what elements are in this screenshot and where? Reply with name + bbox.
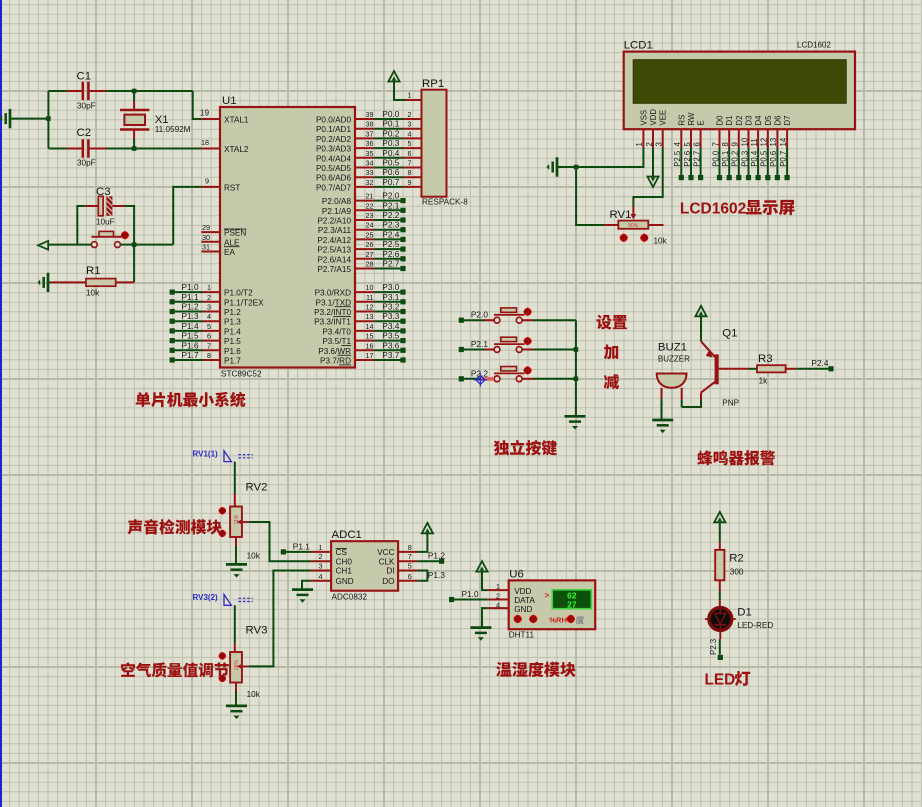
svg-text:1: 1 [635, 142, 644, 146]
svg-text:DO: DO [382, 577, 394, 586]
svg-text:P1.1/T2EX: P1.1/T2EX [224, 298, 264, 307]
svg-text:11: 11 [750, 138, 759, 146]
svg-text:P1.6: P1.6 [224, 347, 241, 356]
svg-text:P2.1: P2.1 [471, 339, 488, 349]
svg-text:P0.1: P0.1 [721, 151, 730, 167]
svg-text:3: 3 [655, 142, 664, 146]
svg-text:P0.7: P0.7 [779, 151, 788, 167]
svg-text:15: 15 [366, 332, 374, 341]
svg-text:U1: U1 [222, 95, 237, 107]
svg-text:4: 4 [207, 312, 211, 321]
svg-text:P2.6: P2.6 [683, 151, 692, 167]
svg-text:P0.4: P0.4 [750, 150, 759, 167]
svg-text:P2.7/A15: P2.7/A15 [317, 265, 351, 274]
svg-text:D3: D3 [745, 116, 754, 126]
svg-text:29: 29 [202, 223, 210, 232]
svg-text:P3.7/RD: P3.7/RD [320, 357, 351, 366]
svg-text:30pF: 30pF [77, 159, 96, 168]
svg-text:P1.2: P1.2 [224, 308, 241, 317]
svg-text:10k: 10k [86, 289, 100, 298]
svg-text:CS: CS [336, 548, 348, 557]
svg-text:P1.3: P1.3 [182, 311, 199, 321]
svg-text:P2.7: P2.7 [692, 151, 701, 167]
svg-text:30: 30 [202, 233, 210, 242]
svg-text:28: 28 [366, 260, 374, 269]
svg-text:RST: RST [224, 183, 240, 192]
svg-text:27: 27 [366, 250, 374, 259]
svg-text:R1: R1 [86, 265, 101, 277]
svg-text:PNP: PNP [722, 399, 739, 408]
svg-text:P1.6: P1.6 [182, 340, 199, 350]
svg-text:P1.1: P1.1 [293, 542, 310, 552]
svg-text:24: 24 [366, 221, 374, 230]
svg-text:19: 19 [200, 109, 210, 118]
svg-text:6: 6 [692, 142, 701, 146]
svg-text:39: 39 [366, 110, 374, 119]
svg-text:17: 17 [366, 351, 374, 360]
svg-text:P0.0: P0.0 [382, 109, 399, 119]
svg-text:5: 5 [408, 139, 412, 148]
svg-text:CLK: CLK [379, 557, 395, 566]
svg-text:18: 18 [201, 138, 209, 147]
svg-text:10k: 10k [247, 690, 261, 699]
svg-text:16: 16 [366, 341, 374, 350]
svg-text:LED: LED [705, 671, 736, 688]
svg-text:LCD1602: LCD1602 [680, 201, 746, 218]
svg-text:4: 4 [408, 129, 412, 138]
svg-text:P1.0: P1.0 [182, 282, 199, 292]
svg-text:D5: D5 [764, 115, 773, 126]
svg-text:RP1: RP1 [422, 78, 444, 90]
svg-text:VDD: VDD [514, 587, 531, 596]
svg-text:10: 10 [366, 283, 374, 292]
svg-text:10k: 10k [654, 237, 668, 246]
svg-text:RESPACK-8: RESPACK-8 [422, 198, 468, 207]
svg-text:GND: GND [336, 577, 354, 586]
svg-text:P0.7: P0.7 [382, 177, 399, 187]
svg-text:P2.4: P2.4 [382, 229, 399, 239]
svg-text:9: 9 [205, 177, 209, 186]
svg-text:BUZ1: BUZ1 [658, 342, 687, 354]
svg-text:11: 11 [366, 293, 373, 302]
svg-text:34: 34 [366, 159, 374, 168]
svg-text:P0.1: P0.1 [382, 119, 399, 129]
svg-text:P2.5: P2.5 [382, 239, 399, 249]
svg-text:BUZZER: BUZZER [658, 355, 690, 364]
svg-text:P1.5: P1.5 [182, 331, 199, 341]
svg-text:1: 1 [319, 543, 323, 552]
svg-text:D2: D2 [735, 116, 744, 126]
svg-text:4: 4 [496, 600, 500, 609]
svg-text:P3.2: P3.2 [382, 302, 399, 312]
svg-text:P3.0/RXD: P3.0/RXD [315, 289, 351, 298]
svg-text:P0.0/AD0: P0.0/AD0 [316, 116, 351, 125]
svg-text:3: 3 [207, 303, 211, 312]
svg-text:26: 26 [366, 240, 374, 249]
svg-text:P3.3: P3.3 [382, 311, 399, 321]
svg-text:LED-RED: LED-RED [737, 621, 773, 630]
svg-text:VSS: VSS [639, 110, 648, 126]
svg-text:P1.1: P1.1 [182, 292, 199, 302]
svg-text:25: 25 [366, 230, 374, 239]
svg-text:P0.5: P0.5 [760, 150, 769, 167]
svg-text:RS: RS [677, 115, 686, 126]
svg-text:P2.5: P2.5 [673, 150, 682, 167]
svg-text:XTAL1: XTAL1 [224, 116, 249, 125]
svg-text:P1.3: P1.3 [428, 570, 445, 580]
svg-text:D7: D7 [783, 116, 792, 126]
svg-text:%RH: %RH [549, 615, 567, 624]
svg-text:P0.5: P0.5 [382, 158, 399, 168]
svg-text:RV3: RV3 [246, 625, 268, 637]
svg-text:8: 8 [408, 168, 412, 177]
svg-text:P2.2: P2.2 [382, 210, 399, 220]
svg-text:1k: 1k [759, 377, 769, 386]
svg-text:P3.4/T0: P3.4/T0 [322, 327, 351, 336]
svg-text:22: 22 [366, 201, 374, 210]
svg-text:P2.3: P2.3 [382, 220, 399, 230]
svg-text:D0: D0 [716, 115, 725, 126]
svg-text:ADC1: ADC1 [332, 529, 362, 541]
svg-text:1: 1 [408, 91, 412, 100]
svg-text:P1.0: P1.0 [462, 589, 479, 599]
svg-text:DHT11: DHT11 [509, 631, 535, 640]
svg-text:8: 8 [721, 142, 730, 146]
svg-text:R3: R3 [758, 353, 773, 365]
svg-text:ADC0832: ADC0832 [332, 593, 368, 602]
svg-text:2: 2 [408, 110, 412, 119]
svg-text:D1: D1 [737, 607, 752, 619]
svg-text:DI: DI [386, 567, 394, 576]
svg-text:P0.6: P0.6 [382, 167, 399, 177]
svg-text:P3.2/INT0: P3.2/INT0 [314, 308, 351, 317]
svg-text:>: > [545, 591, 550, 600]
svg-text:P1.5: P1.5 [224, 337, 241, 346]
svg-text:P0.3: P0.3 [740, 151, 749, 167]
svg-text:P3.0: P3.0 [382, 282, 399, 292]
svg-text:2: 2 [496, 592, 500, 601]
svg-text:R2: R2 [729, 553, 744, 565]
svg-text:P2.0: P2.0 [382, 191, 399, 201]
svg-text:35: 35 [366, 149, 374, 158]
svg-text:RV1(1): RV1(1) [193, 450, 219, 459]
svg-text:D1: D1 [725, 116, 734, 126]
svg-text:DATA: DATA [514, 596, 535, 605]
svg-text:P1.2: P1.2 [428, 551, 445, 561]
svg-text:36: 36 [366, 139, 374, 148]
svg-text:P3.6/WR: P3.6/WR [318, 347, 351, 356]
svg-text:P0.3/AD3: P0.3/AD3 [316, 145, 351, 154]
svg-text:5: 5 [207, 322, 211, 331]
svg-text:P3.6: P3.6 [382, 340, 399, 350]
svg-text:EA: EA [224, 248, 235, 257]
svg-text:RW: RW [687, 112, 696, 125]
svg-text:P0.5/AD5: P0.5/AD5 [316, 164, 351, 173]
svg-text:XTAL2: XTAL2 [224, 145, 249, 154]
svg-text:50%: 50% [628, 223, 639, 229]
svg-text:7: 7 [408, 159, 412, 168]
svg-text:RV2: RV2 [246, 482, 268, 494]
svg-text:P0.2/AD2: P0.2/AD2 [316, 135, 351, 144]
svg-text:P1.4: P1.4 [224, 327, 241, 336]
svg-text:STC89C52: STC89C52 [221, 370, 262, 379]
svg-text:P3.7: P3.7 [382, 350, 399, 360]
svg-text:Q1: Q1 [722, 328, 737, 340]
svg-text:2: 2 [319, 552, 323, 561]
svg-text:P2.0/A8: P2.0/A8 [322, 197, 352, 206]
svg-text:P2.3: P2.3 [709, 639, 718, 655]
svg-text:P0.4/AD4: P0.4/AD4 [316, 154, 351, 163]
svg-text:P1.7: P1.7 [224, 357, 241, 366]
svg-text:P1.2: P1.2 [182, 302, 199, 312]
svg-text:P2.1/A9: P2.1/A9 [322, 207, 352, 216]
svg-text:PSEN: PSEN [224, 229, 246, 238]
svg-text:P0.2: P0.2 [731, 151, 740, 167]
svg-text:VDD: VDD [649, 109, 658, 126]
svg-text:33: 33 [366, 168, 374, 177]
svg-text:4: 4 [319, 572, 323, 581]
svg-text:26%: 26% [234, 659, 240, 670]
svg-text:13: 13 [769, 138, 778, 147]
svg-text:P3.5: P3.5 [382, 331, 399, 341]
svg-text:D4: D4 [754, 115, 763, 126]
svg-text:GND: GND [514, 605, 532, 614]
svg-text:4: 4 [673, 142, 682, 147]
svg-text:300: 300 [730, 568, 744, 577]
svg-text:6: 6 [408, 572, 412, 581]
svg-text:P2.4: P2.4 [811, 358, 828, 368]
svg-text:P0.7/AD7: P0.7/AD7 [316, 183, 351, 192]
svg-text:14: 14 [779, 137, 788, 146]
svg-text:C1: C1 [77, 71, 92, 83]
svg-text:P3.4: P3.4 [382, 321, 399, 331]
svg-text:10uF: 10uF [96, 217, 115, 226]
svg-text:VCC: VCC [377, 548, 394, 557]
svg-text:27: 27 [567, 599, 577, 609]
svg-text:10k: 10k [247, 552, 261, 561]
svg-text:12: 12 [760, 138, 769, 147]
svg-text:RV1: RV1 [610, 209, 632, 221]
svg-text:P3.5/T1: P3.5/T1 [322, 337, 351, 346]
svg-text:P0.6/AD6: P0.6/AD6 [316, 174, 351, 183]
svg-text:8: 8 [207, 351, 211, 360]
svg-text:P0.2: P0.2 [382, 128, 399, 138]
svg-text:11.0592M: 11.0592M [155, 125, 191, 134]
svg-text:1: 1 [496, 582, 500, 591]
svg-text:P1.3: P1.3 [224, 318, 241, 327]
svg-text:P2.3/A11: P2.3/A11 [318, 226, 352, 235]
svg-text:LCD1602: LCD1602 [797, 41, 831, 50]
svg-text:P0.0: P0.0 [711, 150, 720, 167]
svg-text:P0.4: P0.4 [382, 148, 399, 158]
svg-text:U6: U6 [509, 569, 524, 581]
svg-text:12: 12 [366, 303, 374, 312]
svg-text:2: 2 [645, 142, 654, 146]
svg-text:6: 6 [408, 149, 412, 158]
svg-text:P2.6: P2.6 [382, 249, 399, 259]
svg-text:ALE: ALE [224, 238, 240, 247]
svg-text:VEE: VEE [659, 110, 668, 126]
svg-text:P1.0/T2: P1.0/T2 [224, 289, 253, 298]
svg-text:31: 31 [202, 243, 210, 252]
svg-text:30pF: 30pF [77, 102, 96, 111]
svg-text:P1.4: P1.4 [182, 321, 199, 331]
svg-text:13: 13 [366, 312, 374, 321]
svg-text:1: 1 [207, 283, 211, 292]
svg-text:23: 23 [366, 211, 374, 220]
svg-text:P2.0: P2.0 [471, 310, 488, 320]
svg-text:3: 3 [408, 120, 412, 129]
svg-text:37: 37 [366, 129, 374, 138]
svg-text:6: 6 [207, 332, 211, 341]
svg-text:P0.6: P0.6 [769, 151, 778, 167]
svg-text:P0.3: P0.3 [382, 138, 399, 148]
svg-text:7: 7 [408, 552, 412, 561]
svg-text:P2.4/A12: P2.4/A12 [317, 236, 351, 245]
svg-text:E: E [697, 120, 706, 125]
svg-text:CH1: CH1 [336, 567, 353, 576]
svg-text:8: 8 [408, 543, 412, 552]
svg-text:32: 32 [366, 178, 374, 187]
svg-text:P0.1/AD1: P0.1/AD1 [316, 125, 351, 134]
svg-text:3: 3 [319, 562, 323, 571]
svg-text:P1.7: P1.7 [182, 350, 199, 360]
svg-text:LCD1: LCD1 [624, 40, 653, 52]
svg-text:10: 10 [740, 137, 749, 146]
svg-text:CH0: CH0 [336, 557, 353, 566]
svg-text:P3.1: P3.1 [382, 292, 399, 302]
svg-text:9: 9 [731, 142, 740, 146]
svg-text:7: 7 [207, 341, 211, 350]
svg-text:P2.6/A14: P2.6/A14 [317, 255, 351, 264]
svg-text:P2.7: P2.7 [382, 259, 399, 269]
svg-text:P2.1: P2.1 [382, 200, 399, 210]
svg-text:5: 5 [408, 562, 412, 571]
svg-text:D6: D6 [773, 116, 782, 126]
svg-text:7: 7 [711, 142, 720, 146]
svg-text:P2.2/A10: P2.2/A10 [317, 217, 351, 226]
svg-text:5: 5 [683, 142, 692, 147]
svg-text:P3.3/INT1: P3.3/INT1 [314, 318, 351, 327]
svg-text:21: 21 [366, 192, 374, 201]
svg-text:RV3(2): RV3(2) [193, 593, 219, 602]
svg-text:P2.5/A13: P2.5/A13 [317, 246, 351, 255]
svg-text:9: 9 [408, 178, 412, 187]
svg-text:38: 38 [366, 120, 374, 129]
svg-text:2: 2 [207, 293, 211, 302]
svg-text:C2: C2 [77, 127, 92, 139]
svg-text:P3.1/TXD: P3.1/TXD [316, 298, 352, 307]
svg-text:14: 14 [366, 322, 374, 331]
